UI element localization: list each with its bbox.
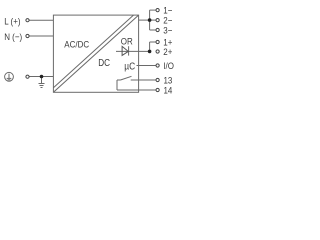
svg-text:N (−): N (−) [4,31,22,42]
svg-text:L (+): L (+) [4,16,20,27]
svg-text:OR: OR [121,36,133,47]
svg-text:I/O: I/O [163,60,174,71]
svg-text:µC: µC [124,61,135,72]
svg-text:DC: DC [98,57,110,68]
svg-text:2+: 2+ [163,46,172,57]
svg-text:AC/DC: AC/DC [64,39,89,50]
svg-text:3−: 3− [163,25,172,36]
svg-text:14: 14 [163,85,172,96]
